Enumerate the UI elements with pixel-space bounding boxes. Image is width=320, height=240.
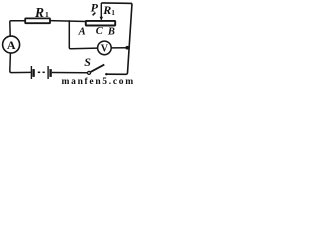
voltmeter V1 circle — [98, 41, 112, 55]
wire top-left corner and left vertical to ammeter — [10, 21, 25, 36]
rheostat body — [86, 21, 115, 26]
svg-text:R: R — [34, 5, 44, 20]
switch S pivot — [88, 71, 91, 74]
wire from wiper top to top-right corner — [101, 2, 132, 5]
battery cell 1 short thick plate — [32, 69, 34, 77]
wire from switch to bottom-right corner and up right edge — [106, 3, 132, 74]
ammeter A1 circle — [3, 36, 20, 53]
svg-text:manfen5.com: manfen5.com — [62, 77, 135, 85]
wire from ammeter down to bottom-left corner and right to battery — [10, 53, 31, 72]
svg-text:A: A — [78, 26, 86, 37]
svg-text:R: R — [102, 3, 111, 17]
rheostat wiper stem with arrowhead — [100, 3, 102, 18]
wire from R1 to rheostat left end — [50, 20, 87, 23]
svg-text:B: B — [107, 26, 115, 37]
wire from voltmeter to right edge — [111, 47, 129, 49]
switch right contact — [105, 73, 107, 75]
resistor R1 box — [25, 18, 50, 23]
svg-text:1: 1 — [45, 10, 49, 19]
svg-text:1: 1 — [111, 9, 115, 17]
svg-text:S: S — [84, 55, 91, 69]
battery cell 1 long plate — [30, 66, 32, 79]
junction dot at right edge — [125, 46, 129, 50]
svg-text:C: C — [96, 26, 104, 37]
small tick under P — [93, 13, 96, 16]
svg-text:V: V — [101, 43, 109, 54]
battery cell 2 short thick plate — [49, 69, 51, 77]
wire from battery to switch pivot — [52, 72, 88, 74]
switch S blade — [90, 65, 104, 73]
svg-text:A: A — [7, 38, 16, 52]
battery cell 2 long plate — [47, 66, 49, 79]
wire from junction down and right to voltmeter — [69, 20, 97, 49]
dashed wire between cells — [38, 71, 40, 73]
